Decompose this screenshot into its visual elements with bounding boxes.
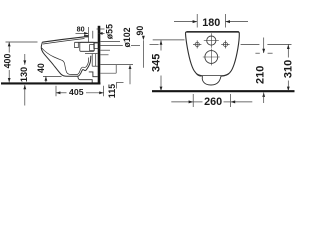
svg-text:345: 345 — [151, 54, 163, 72]
svg-text:180: 180 — [202, 17, 220, 29]
svg-text:400: 400 — [2, 54, 12, 69]
svg-text:40: 40 — [36, 63, 46, 73]
svg-text:210: 210 — [254, 66, 266, 84]
svg-text:405: 405 — [69, 87, 84, 97]
svg-text:115: 115 — [107, 84, 117, 98]
svg-text:260: 260 — [204, 96, 222, 108]
svg-text:310: 310 — [283, 60, 295, 78]
svg-text:80: 80 — [77, 25, 85, 34]
svg-text:ø102: ø102 — [122, 27, 132, 47]
svg-text:130: 130 — [19, 67, 29, 82]
svg-text:ø55: ø55 — [105, 24, 115, 39]
svg-text:90: 90 — [135, 26, 145, 36]
